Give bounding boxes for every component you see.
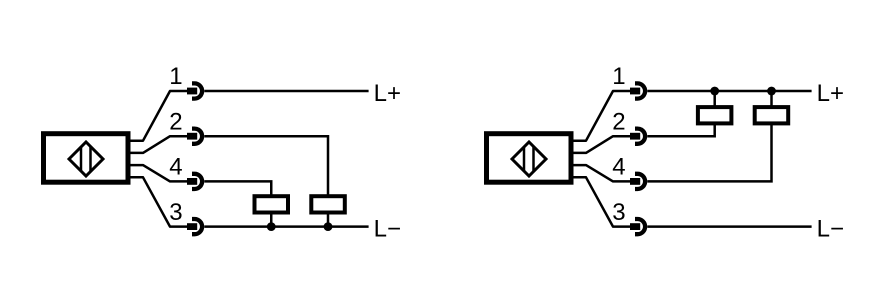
wire load2 to L- (left) [327,213,330,227]
wire pin3 to L- (left) [204,225,368,228]
wire pin4 to load1 (left) [204,181,271,196]
wire pin4 to load4 (right) [647,124,771,182]
load resistor 2 (left) [311,196,345,212]
connector pin 4 (right) [630,174,645,189]
svg-text:2: 2 [169,108,182,135]
wire pin1 fanout (right) [571,91,631,141]
svg-text:4: 4 [612,154,625,181]
wire pin3 to L- (right) [647,225,811,228]
load resistor 4 (right) [755,107,789,123]
svg-text:L+: L+ [817,80,844,107]
wire pin3 fanout (left) [128,177,188,226]
junction load1/L- (left) [267,222,276,231]
svg-text:2: 2 [612,108,625,135]
wire pin4 fanout (left) [128,165,188,181]
connector pin 3 (left) [187,219,202,234]
wire pin2 to load2 (left) [204,136,328,196]
wire pin2 fanout (left) [128,136,188,153]
wire pin1 to L+ (right) [647,90,811,93]
wire load1 to L- (left) [270,213,273,227]
connector pin 2 (right) [630,129,645,144]
svg-text:L−: L− [817,215,844,242]
junction L+/load3 (right) [710,87,719,96]
connector pin 4 (left) [187,174,202,189]
wire pin2 fanout (right) [571,136,631,153]
load resistor 1 (left) [255,196,289,212]
svg-text:L−: L− [374,215,401,242]
wire pin1 fanout (left) [128,91,188,141]
svg-text:4: 4 [169,154,182,181]
wire pin3 fanout (right) [571,177,631,226]
sensor symbol (left) proximity diamond [69,142,103,176]
svg-text:1: 1 [612,63,625,90]
connector pin 1 (left) [187,83,202,98]
svg-text:L+: L+ [374,80,401,107]
wire pin4 fanout (right) [571,165,631,181]
sensor symbol (right diagram) body [487,134,572,183]
sensor symbol (right) proximity diamond [512,142,546,176]
svg-text:1: 1 [169,63,182,90]
connector pin 2 (left) [187,129,202,144]
junction load2/L- (left) [324,222,333,231]
wire L+ to load3 (right) [713,91,716,108]
connector pin 3 (right) [630,219,645,234]
wire pin2 to load3 (right) [647,124,714,137]
svg-text:3: 3 [169,199,182,226]
load resistor 3 (right) [698,107,732,123]
junction L+/load4 (right) [767,87,776,96]
connector pin 1 (right) [630,83,645,98]
sensor symbol (left diagram) body [44,134,129,183]
wire pin1 to L+ (left) [204,90,368,93]
svg-text:3: 3 [612,199,625,226]
wire L+ to load4 (right) [770,91,773,108]
